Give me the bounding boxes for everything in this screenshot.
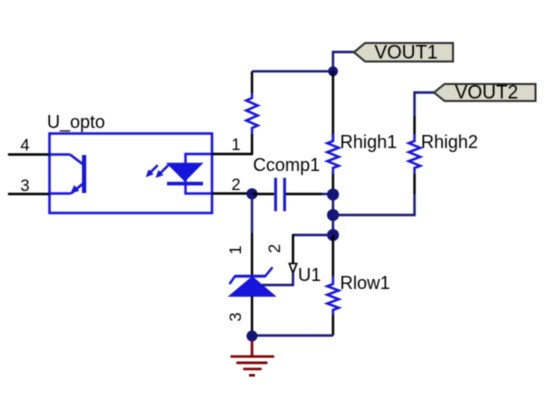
wire pin2-node down to U1 cathode <box>251 194 253 233</box>
wire VOUT1 node up to flag <box>333 52 354 71</box>
wire resistor top to corner <box>251 71 253 93</box>
wire node B to Rhigh2 <box>333 194 415 215</box>
junction dot ground node <box>247 331 258 342</box>
U1 reference open arrowhead <box>289 264 296 274</box>
LED triangle <box>167 163 202 181</box>
svg-text:4: 4 <box>20 137 29 155</box>
svg-text:VOUT1: VOUT1 <box>374 43 437 64</box>
wire Rhigh2 top to VOUT2 flag <box>413 116 415 134</box>
wire Rhigh1 bottom to node <box>332 174 334 195</box>
series resistor (unlabelled) <box>246 93 258 134</box>
LED light arrow 2 <box>159 165 169 175</box>
U1 anode triangle <box>229 277 275 297</box>
pin 1 wire <box>212 153 253 155</box>
resistor Rhigh2 <box>409 134 421 174</box>
wire node C down to Rlow1 <box>332 235 334 277</box>
LED cathode bar <box>167 182 203 186</box>
svg-text:1: 1 <box>227 245 245 254</box>
wire VOUT1 node down to Rhigh1 <box>332 71 334 134</box>
capacitor Ccomp1 plates <box>274 178 277 211</box>
junction node at VOUT1 <box>328 66 338 76</box>
svg-text:VOUT2: VOUT2 <box>455 83 518 104</box>
svg-text:2: 2 <box>231 176 240 194</box>
pin 4 wire <box>8 153 49 155</box>
svg-text:Rhigh1: Rhigh1 <box>340 132 397 152</box>
svg-text:Ccomp1: Ccomp1 <box>253 155 320 175</box>
svg-text:Rlow1: Rlow1 <box>340 273 390 293</box>
svg-text:Rhigh2: Rhigh2 <box>421 132 478 152</box>
svg-text:3: 3 <box>227 312 245 321</box>
wire top horizontal to VOUT1 node <box>252 70 333 72</box>
resistor Rhigh1 <box>327 134 339 174</box>
phototransistor Q inside U_opto <box>50 155 83 194</box>
phototransistor emitter arrow <box>71 185 80 193</box>
ground symbol <box>231 340 275 375</box>
junction dot pin2 node <box>246 188 257 199</box>
optocoupler U_opto body <box>50 134 213 214</box>
svg-text:1: 1 <box>231 136 240 154</box>
U1 pin 1 lead <box>251 233 253 276</box>
LED light arrow 1 <box>149 165 158 174</box>
U1 reference wire from node C <box>293 234 333 236</box>
wire pin2 node to capacitor <box>252 193 274 195</box>
LED bracket inside U_opto <box>186 154 213 194</box>
svg-text:U1: U1 <box>298 265 321 285</box>
wire bottom horizontal to ground node <box>252 334 333 336</box>
wire Rlow1 bottom corner <box>332 315 334 336</box>
U1 cathode bar with zener hooks <box>230 267 273 284</box>
net label VOUT2 flag <box>434 84 536 101</box>
wire capacitor to mid node <box>286 193 322 195</box>
resistor Rlow1 <box>327 277 339 315</box>
wire between junctions <box>332 195 334 236</box>
pin 3 wire <box>8 193 49 195</box>
pin 2 wire <box>212 192 252 194</box>
junction dot node B <box>327 209 339 221</box>
svg-text:2: 2 <box>266 244 284 253</box>
svg-text:3: 3 <box>20 177 29 195</box>
svg-text:U_opto: U_opto <box>47 112 105 133</box>
wire pin1 up to series resistor <box>251 134 253 154</box>
junction dot node A <box>327 189 339 201</box>
U1 pin 3 lead <box>251 296 253 332</box>
junction dot node C <box>327 229 339 241</box>
net label VOUT1 flag <box>354 43 453 62</box>
U1 reference lead into anode <box>262 273 293 285</box>
